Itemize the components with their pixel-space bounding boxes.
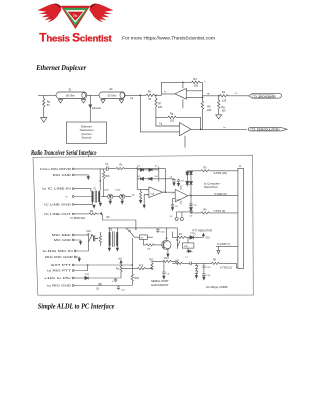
svg-text:220: 220 <box>207 109 212 112</box>
svg-text:Rg: Rg <box>221 106 225 109</box>
relay contact K1C <box>87 231 102 246</box>
DSR output wire <box>188 192 238 197</box>
svg-text:220: 220 <box>158 106 163 109</box>
capacitors C13 C14 <box>202 263 211 279</box>
svg-text:R13: R13 <box>164 258 169 260</box>
svg-text:Ethernet: Ethernet <box>92 107 101 110</box>
resistor R4 <box>192 78 203 88</box>
svg-text:50: 50 <box>47 104 50 107</box>
svg-text:Rg: Rg <box>170 113 174 116</box>
svg-text:R12: R12 <box>149 259 154 261</box>
wire coax2 to R6 <box>125 94 146 96</box>
wire R6 to opamp <box>155 94 162 96</box>
svg-text:From RIG DRVR: From RIG DRVR <box>40 167 72 171</box>
node Fg wire <box>156 117 180 126</box>
vertical bus with D8 <box>186 171 193 213</box>
svg-text:C4: C4 <box>169 177 173 179</box>
svg-text:50 Ohm: 50 Ohm <box>108 95 117 98</box>
svg-text:For more Https://www.ThesisSci: For more Https://www.ThesisScientist.com <box>122 35 215 40</box>
output wire to demodulation <box>191 127 247 130</box>
resistor R1 <box>116 165 137 170</box>
svg-text:D2: D2 <box>155 166 159 168</box>
U1A input wires <box>186 91 202 98</box>
svg-text:U1A: U1A <box>150 193 154 196</box>
svg-text:R5: R5 <box>213 259 217 261</box>
svg-text:C9: C9 <box>166 274 170 276</box>
svg-text:LM7: LM7 <box>184 246 189 248</box>
terminal MIC GND <box>54 238 82 245</box>
svg-text:R1: R1 <box>222 91 226 94</box>
svg-text:Thesis Scientist: Thesis Scientist <box>39 30 112 44</box>
svg-text:GAIN ADJUST: GAIN ADJUST <box>151 283 169 287</box>
svg-text:Transceiver: Transceiver <box>79 128 93 132</box>
resistor R9 <box>218 96 227 115</box>
svg-text:C6: C6 <box>175 206 179 208</box>
TXD rail with R14 C7 R5 <box>173 257 238 270</box>
svg-text:R9: R9 <box>107 217 111 219</box>
label serial port gain adjust <box>151 279 169 287</box>
svg-text:R7: R7 <box>179 234 183 236</box>
svg-text:Radio Tranceiver Serial Interf: Radio Tranceiver Serial Interface <box>30 149 96 157</box>
connector J1 <box>238 166 244 269</box>
svg-text:R1: R1 <box>120 165 124 167</box>
opamp U1A output wire <box>162 93 176 95</box>
svg-text:RIG GND: RIG GND <box>53 173 72 177</box>
wire Fa to lower opamp <box>140 95 179 132</box>
svg-text:J1: J1 <box>239 166 242 168</box>
svg-text:hc: hc <box>224 127 227 129</box>
ground under Z2 left <box>101 99 105 104</box>
svg-text:+10: +10 <box>118 259 123 261</box>
terminal RIG GND <box>53 173 90 180</box>
svg-text:Source): Source) <box>82 135 92 139</box>
power +10 arrow <box>118 259 123 265</box>
resistor R6 <box>146 91 155 101</box>
svg-text:VCC: VCC <box>205 238 210 240</box>
svg-text:RIG MIC GND: RIG MIC GND <box>45 255 74 259</box>
logo triangle <box>61 6 91 29</box>
terminal +10v to 15v with diode D5 <box>44 272 121 280</box>
relay coil K1 <box>134 235 153 240</box>
capacitor C11 <box>112 278 117 283</box>
terminal to RIG GND <box>47 283 132 287</box>
T1 riser to rail <box>99 169 101 191</box>
svg-text:Ethernet Duplexer: Ethernet Duplexer <box>35 64 86 72</box>
svg-text:Ta: Ta <box>235 93 238 95</box>
capacitor C5 on bus <box>189 204 197 207</box>
resistor R16 <box>103 169 111 197</box>
svg-text:(Current: (Current <box>81 132 91 136</box>
terminal EXT PTT <box>51 263 132 267</box>
svg-text:1N4: 1N4 <box>85 274 90 276</box>
diodes D10 D11 below rail <box>195 263 198 278</box>
wire R1 to net label <box>228 93 249 96</box>
svg-text:125: 125 <box>222 99 227 102</box>
svg-text:IC MOD ADJ: IC MOD ADJ <box>71 216 87 220</box>
terminal IC LINE OUT <box>44 212 89 216</box>
svg-text:100: 100 <box>221 109 226 112</box>
label to computer serial port <box>204 181 220 189</box>
svg-text:+: + <box>112 280 114 283</box>
U1A2 input wires <box>137 182 149 208</box>
diode D7b on bus <box>186 182 193 186</box>
svg-text:TX_DEMODULATION: TX_DEMODULATION <box>252 128 280 132</box>
terminal From RIG DRVR <box>40 167 106 171</box>
capacitor C8 <box>96 284 102 291</box>
U1B power stubs <box>180 186 182 205</box>
svg-text:C8: C8 <box>96 289 100 291</box>
feedback riser <box>161 82 163 95</box>
ground under R9 <box>216 115 222 119</box>
resistor R8 <box>156 113 201 123</box>
transistor Q1 <box>162 228 171 257</box>
svg-text:3: 3 <box>147 195 148 197</box>
svg-text:R4: R4 <box>193 78 197 81</box>
capacitor C12 <box>117 286 126 292</box>
capacitor C4b network under U1B <box>170 212 194 221</box>
svg-text:Fa: Fa <box>131 98 134 100</box>
PTT indicator row <box>173 229 213 238</box>
svg-text:Rg: Rg <box>47 101 51 104</box>
svg-text:R15: R15 <box>135 278 140 280</box>
opamp U1B2 <box>173 189 191 202</box>
svg-text:K1C: K1C <box>87 231 92 233</box>
diode D9b <box>186 250 192 253</box>
ground under Z1 left <box>58 99 62 104</box>
resistor R8 (IC MOD ADJ) <box>71 211 136 230</box>
transformer T1 <box>92 188 99 202</box>
terminal IC LINE GND <box>44 202 95 208</box>
wire between coaxes <box>87 94 99 96</box>
svg-text:Ethernet: Ethernet <box>81 125 92 129</box>
opamp U1A2 <box>147 187 165 198</box>
svg-text:100: 100 <box>170 119 175 122</box>
svg-text:7 RTS (4): 7 RTS (4) <box>213 209 225 213</box>
diode D10b in circle with ground <box>113 189 132 203</box>
Ethernet transceiver box <box>67 122 107 144</box>
diode pair second column <box>186 171 191 187</box>
capacitor C10 <box>156 228 165 233</box>
resistor Rb <box>143 239 163 250</box>
svg-text:D4: D4 <box>155 176 159 178</box>
resistor R7 <box>177 234 190 239</box>
node Fa <box>131 94 142 99</box>
svg-text:D10a: D10a <box>104 189 110 191</box>
svg-text:C7: C7 <box>185 257 189 259</box>
capacitor C3 with ground <box>177 179 185 186</box>
svg-text:IC LINE OUT: IC LINE OUT <box>44 212 71 216</box>
wire rail to U1A feedback <box>137 169 166 193</box>
svg-text:6 DSR (6): 6 DSR (6) <box>214 192 226 196</box>
svg-text:100: 100 <box>194 85 199 88</box>
svg-text:Ra: Ra <box>116 269 120 271</box>
net label TX_BROADBAND <box>249 93 282 98</box>
svg-text:50: 50 <box>148 98 151 101</box>
VCC symbol <box>202 233 210 239</box>
relay contact K1a <box>177 228 181 249</box>
svg-text:R6: R6 <box>148 91 152 94</box>
resistor R15 <box>131 238 139 286</box>
IC U2 box <box>182 237 194 251</box>
logo wings left <box>37 4 61 23</box>
svg-text:R14: R14 <box>175 260 180 262</box>
svg-text:Hb: Hb <box>207 93 211 95</box>
svg-text:Rb: Rb <box>147 248 151 250</box>
svg-text:+-: +- <box>65 194 68 198</box>
svg-text:MIC REF: MIC REF <box>52 233 71 237</box>
svg-text:D1: D1 <box>138 166 142 168</box>
svg-text:Fc: Fc <box>164 92 167 94</box>
svg-text:C14: C14 <box>206 275 211 277</box>
LED D12 <box>190 232 204 239</box>
svg-text:IC LINE GND: IC LINE GND <box>44 202 72 206</box>
transformer T2 <box>109 229 117 247</box>
capacitor C6 under U1B2 <box>171 198 179 210</box>
svg-text:to RIG GND: to RIG GND <box>47 283 72 287</box>
svg-text:to RIG MIC IN: to RIG MIC IN <box>43 249 73 253</box>
svg-text:to IC LINE IN: to IC LINE IN <box>42 187 71 191</box>
capacitor C1 <box>105 164 116 171</box>
svg-text:T2: T2 <box>109 229 112 231</box>
capacitor C9 <box>162 261 170 278</box>
svg-text:Jim Mitrige, KK6MF: Jim Mitrige, KK6MF <box>206 286 228 289</box>
vertical node column <box>202 82 204 101</box>
coax Z2 <box>99 88 125 99</box>
svg-text:C13: C13 <box>206 267 211 269</box>
terminal MIC REF <box>52 233 89 237</box>
switch S1 <box>126 228 136 237</box>
ground under Z1 right <box>81 99 85 104</box>
svg-text:Z2: Z2 <box>110 88 114 91</box>
svg-text:5 GND (7): 5 GND (7) <box>217 242 230 246</box>
feedback rail <box>162 81 192 83</box>
svg-text:TX_BROADBAND: TX_BROADBAND <box>254 94 277 98</box>
resistor R5 <box>201 101 212 129</box>
svg-text:D10b: D10b <box>115 189 121 191</box>
svg-text:Th: Th <box>73 14 77 18</box>
svg-text:R16: R16 <box>105 176 110 178</box>
wire drop to transceiver <box>89 95 102 122</box>
svg-text:4 DTR (20): 4 DTR (20) <box>213 171 227 175</box>
svg-text:C4: C4 <box>170 216 174 218</box>
coax Z1 <box>56 89 87 99</box>
supply rail top <box>108 228 177 232</box>
resistor R1 <box>220 91 229 102</box>
GND wire to connector <box>216 242 238 254</box>
resistor Rg (left termination) <box>43 95 51 112</box>
svg-text:Z1: Z1 <box>69 89 73 92</box>
terminal to RIG MIC IN <box>43 243 89 253</box>
resistor R7 <box>155 95 163 117</box>
svg-text:50 Ohm: 50 Ohm <box>66 95 75 98</box>
resistor R3 DTR <box>191 167 238 175</box>
svg-text:R4: R4 <box>203 209 207 211</box>
T2 grounds <box>108 246 118 250</box>
diode D10a in circle with ground <box>101 189 113 203</box>
terminal to RIG PTT <box>47 265 87 272</box>
svg-text:C12: C12 <box>121 289 126 291</box>
logo wings right <box>90 4 114 23</box>
svg-text:Fg: Fg <box>159 124 162 126</box>
svg-text:h: h <box>204 81 206 83</box>
svg-text:Q1: Q1 <box>165 238 169 240</box>
svg-text:PTT INDICATOR: PTT INDICATOR <box>193 229 213 233</box>
svg-text:EXT PTT: EXT PTT <box>51 263 71 267</box>
resistor R2 with ground <box>132 189 142 203</box>
svg-text:D6: D6 <box>190 215 194 217</box>
opamp U1B <box>180 123 191 148</box>
svg-text:R3: R3 <box>203 167 207 169</box>
svg-text:Simple ALDL to PC Interface: Simple ALDL to PC Interface <box>38 302 115 311</box>
svg-text:T1: T1 <box>93 188 96 190</box>
terminal to IC LINE IN <box>42 187 91 192</box>
svg-text:MIC GND: MIC GND <box>54 238 72 242</box>
resistor R4 RTS <box>190 209 238 214</box>
svg-text:3 TXD (2): 3 TXD (2) <box>220 266 232 270</box>
ground under Rg <box>41 112 47 122</box>
opamp U1A <box>164 82 186 109</box>
svg-text:SERIAL PORT: SERIAL PORT <box>151 279 169 283</box>
svg-text:R2: R2 <box>132 194 136 196</box>
svg-text:to RIG PTT: to RIG PTT <box>47 268 71 272</box>
resistor R12 <box>149 259 154 269</box>
terminal aux <box>65 194 92 198</box>
svg-text:C1: C1 <box>105 164 109 166</box>
rail B with resistor R10 <box>121 265 153 269</box>
resistor Ra <box>116 265 122 272</box>
svg-text:C10: C10 <box>161 231 166 233</box>
svg-text:R5: R5 <box>207 106 211 109</box>
T1 ground arrow <box>92 202 101 206</box>
net label TX_DEMODULATION <box>248 128 287 132</box>
svg-text:R10: R10 <box>139 265 144 267</box>
terminal RIG MIC GND <box>45 255 80 262</box>
capacitor C4 with ground <box>159 177 176 186</box>
schematic frame <box>33 155 253 295</box>
U1A2 output wire <box>163 191 176 193</box>
wire rail left <box>38 94 56 96</box>
rail to R1 <box>202 93 219 96</box>
ground under Z2 right <box>119 99 123 104</box>
lower feedback drop <box>200 117 202 129</box>
svg-text:+10v to 15v: +10v to 15v <box>44 276 72 280</box>
diode network D1 D2 D3 D4 <box>137 166 159 182</box>
svg-text:2: 2 <box>147 190 148 192</box>
svg-text:5: 5 <box>173 193 174 195</box>
diode D9 on bus <box>189 208 192 211</box>
svg-text:Serial Port: Serial Port <box>204 185 218 189</box>
svg-text:C3: C3 <box>181 180 185 182</box>
rail A with resistor R13 <box>152 258 178 264</box>
svg-text:C5: C5 <box>194 205 198 207</box>
node J2 <box>155 95 157 97</box>
